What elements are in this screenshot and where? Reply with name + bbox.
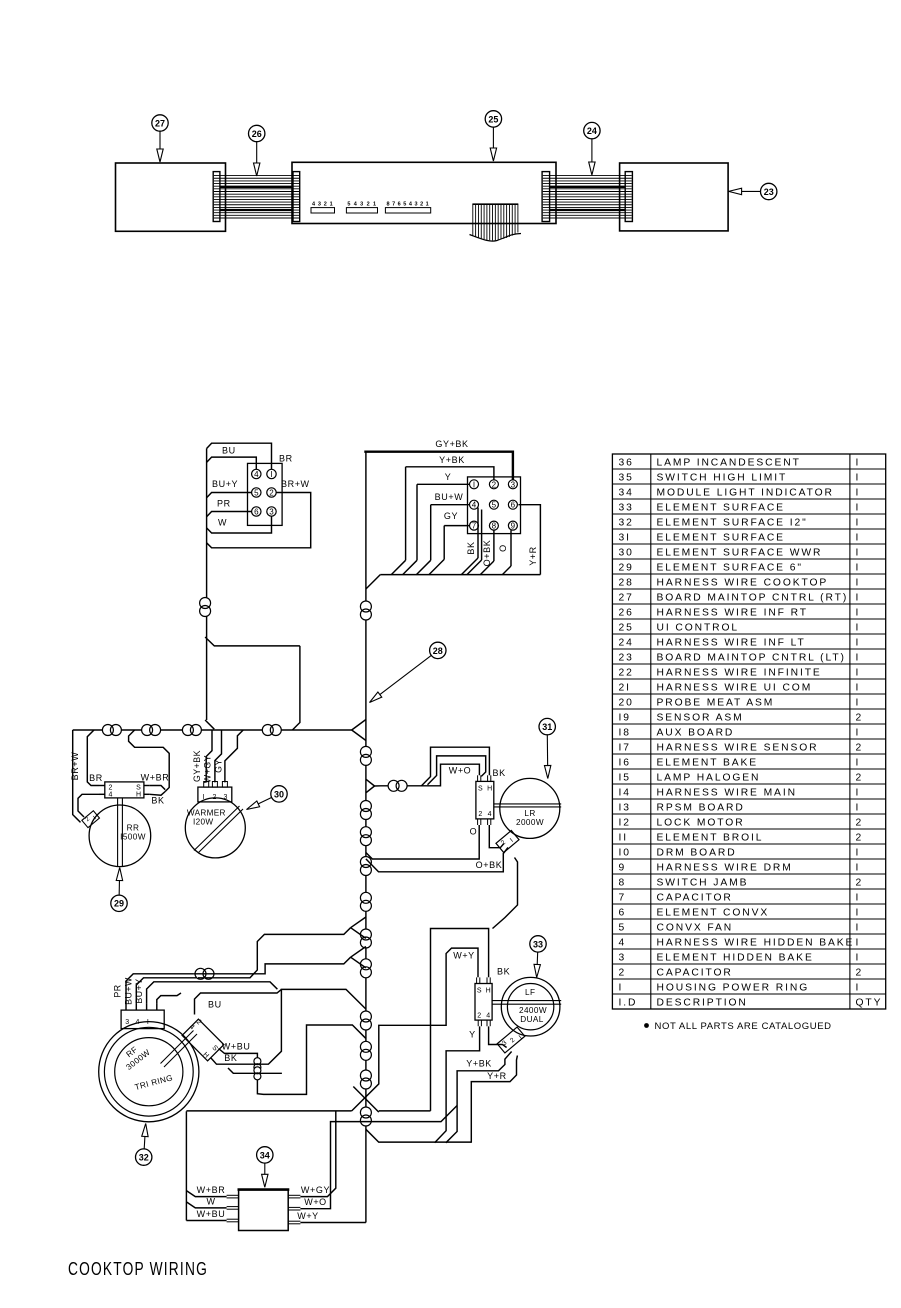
svg-text:I: I <box>856 547 861 558</box>
svg-text:O: O <box>470 827 478 837</box>
svg-text:ELEMENT BROIL: ELEMENT BROIL <box>657 832 764 843</box>
svg-text:2: 2 <box>109 785 113 792</box>
svg-text:7: 7 <box>392 202 395 208</box>
RF terminal block <box>121 1004 164 1029</box>
svg-text:2: 2 <box>324 202 327 208</box>
svg-text:2: 2 <box>492 480 497 489</box>
svg-text:36: 36 <box>619 457 634 468</box>
svg-text:7: 7 <box>472 522 477 531</box>
svg-text:34: 34 <box>260 1150 270 1160</box>
svg-text:ELEMENT SURFACE: ELEMENT SURFACE <box>657 502 785 513</box>
PR wire continues to bus <box>194 957 351 974</box>
wire BK to LF switch H <box>431 929 511 1111</box>
wire BK to LR switch H (outer loop) <box>422 747 506 786</box>
wire W+GY to WARMER pin2 <box>202 730 221 783</box>
svg-text:I: I <box>856 727 861 738</box>
svg-text:BOARD MAINTOP CNTRL (LT): BOARD MAINTOP CNTRL (LT) <box>657 652 846 663</box>
connector J-RT 9-pin block <box>468 477 521 534</box>
parts list table <box>612 454 885 1009</box>
svg-text:BR+W: BR+W <box>281 479 310 489</box>
svg-text:I8: I8 <box>619 727 631 738</box>
wire W+BU from RF switch S <box>219 1025 366 1094</box>
wire BU+W to pin 4 <box>431 492 470 505</box>
svg-text:H: H <box>486 988 491 995</box>
svg-text:BK: BK <box>493 768 506 778</box>
svg-text:I: I <box>856 622 861 633</box>
svg-text:24: 24 <box>619 637 634 648</box>
svg-text:W+Y: W+Y <box>453 951 475 961</box>
svg-text:S: S <box>477 988 482 995</box>
svg-text:3I: 3I <box>619 532 631 543</box>
crossover on left bus <box>200 598 211 617</box>
svg-text:Y+BK: Y+BK <box>466 1059 492 1069</box>
svg-text:23: 23 <box>619 652 634 663</box>
svg-text:W+GY: W+GY <box>202 755 212 783</box>
box34 left pin W <box>186 1196 238 1209</box>
svg-text:PR: PR <box>217 499 231 509</box>
crossovers on W+BU vertical <box>254 1058 261 1080</box>
left harness bus vertical <box>206 449 208 721</box>
svg-text:HARNESS WIRE UI COM: HARNESS WIRE UI COM <box>657 682 813 693</box>
wire from RR pin 4 to plug <box>78 794 99 817</box>
wire Y+R from pin 6 <box>518 505 540 575</box>
svg-text:BU+W: BU+W <box>435 492 464 502</box>
svg-text:2: 2 <box>856 877 864 888</box>
svg-text:SENSOR ASM: SENSOR ASM <box>657 712 744 723</box>
callout 26 <box>249 125 265 176</box>
svg-text:GY: GY <box>444 511 458 521</box>
LF element circle <box>492 977 561 1036</box>
callout 27 <box>152 115 168 162</box>
svg-text:HARNESS WIRE SENSOR: HARNESS WIRE SENSOR <box>657 742 819 753</box>
svg-text:RR: RR <box>127 824 140 833</box>
wire BR to RR switch pin 2 <box>87 730 103 786</box>
svg-text:BU: BU <box>208 1000 222 1010</box>
svg-text:I: I <box>856 802 861 813</box>
RF rotated switch block <box>182 1019 224 1061</box>
svg-text:BK: BK <box>224 1053 237 1063</box>
svg-text:2: 2 <box>856 832 864 843</box>
svg-text:ELEMENT SURFACE: ELEMENT SURFACE <box>657 532 785 543</box>
svg-text:2: 2 <box>856 712 864 723</box>
wire BU+Y to pin 5 <box>207 479 252 498</box>
svg-text:2000W: 2000W <box>516 818 544 827</box>
svg-text:2: 2 <box>619 967 627 978</box>
svg-text:1: 1 <box>426 202 429 208</box>
svg-text:2: 2 <box>367 202 370 208</box>
cooktop harness main bus vertical, item 28 <box>365 452 367 1223</box>
label BU+W vertical <box>123 977 133 1005</box>
svg-text:7: 7 <box>619 892 627 903</box>
svg-text:Y: Y <box>445 472 452 482</box>
svg-text:I5: I5 <box>619 772 631 783</box>
svg-text:DESCRIPTION: DESCRIPTION <box>657 997 748 1008</box>
svg-text:I: I <box>147 1019 149 1026</box>
svg-text:I: I <box>856 952 861 963</box>
wire from LR pin 4 down <box>489 825 504 848</box>
harness wire INF RT ribbon, item 26 <box>214 176 299 218</box>
callout 31 <box>539 718 555 778</box>
svg-text:MODULE LIGHT INDICATOR: MODULE LIGHT INDICATOR <box>657 487 834 498</box>
svg-text:2400W: 2400W <box>519 1006 547 1015</box>
svg-text:BU+W: BU+W <box>123 977 133 1005</box>
svg-text:ELEMENT SURFACE 6": ELEMENT SURFACE 6" <box>657 562 803 573</box>
svg-text:BU+Y: BU+Y <box>212 479 238 489</box>
svg-text:28: 28 <box>619 577 634 588</box>
svg-text:28: 28 <box>433 646 443 656</box>
callout 25 <box>485 111 501 161</box>
svg-text:4: 4 <box>488 811 492 818</box>
feed line from bus bottom <box>186 1110 351 1112</box>
svg-text:29: 29 <box>619 562 634 573</box>
LR infinite switch block <box>476 775 494 825</box>
svg-text:6: 6 <box>619 907 627 918</box>
svg-text:AUX BOARD: AUX BOARD <box>657 727 735 738</box>
ribbon connector bar right of harness 26 <box>293 172 300 222</box>
svg-text:I: I <box>856 517 861 528</box>
svg-text:9: 9 <box>619 862 627 873</box>
svg-text:I9: I9 <box>619 712 631 723</box>
ribbon connector bar left of harness 26 <box>213 172 220 222</box>
svg-text:I2: I2 <box>619 817 631 828</box>
callout 23 <box>729 183 777 199</box>
svg-text:W+Y: W+Y <box>297 1211 319 1221</box>
svg-text:I: I <box>270 470 272 479</box>
svg-text:DRM BOARD: DRM BOARD <box>657 847 737 858</box>
wire W from pin 3 <box>207 516 272 533</box>
svg-text:NOT ALL PARTS ARE CATALOGUED: NOT ALL PARTS ARE CATALOGUED <box>655 1021 832 1032</box>
svg-text:GY+BK: GY+BK <box>192 750 202 782</box>
right horizontal to LF BK <box>379 1110 431 1112</box>
wire BK from RR switch H <box>150 792 166 806</box>
svg-text:LR: LR <box>524 809 535 818</box>
svg-text:I: I <box>856 757 861 768</box>
svg-text:24: 24 <box>587 126 597 136</box>
svg-text:SWITCH HIGH LIMIT: SWITCH HIGH LIMIT <box>657 472 788 483</box>
wire BK from RF switch H <box>211 989 366 1064</box>
svg-text:20: 20 <box>619 697 634 708</box>
wire from LF pin 4 to dual pin 3 <box>489 1026 507 1047</box>
pin strip 87654321 on UI board <box>385 202 430 214</box>
svg-text:DUAL: DUAL <box>520 1015 543 1024</box>
svg-text:I: I <box>856 487 861 498</box>
left feed vertical to box 34 <box>185 1111 187 1220</box>
svg-text:I500W: I500W <box>120 833 146 842</box>
wire GY to WARMER pin3 <box>213 730 243 782</box>
BU+W wire continues to bus <box>198 928 351 978</box>
svg-text:BU+Y: BU+Y <box>134 978 144 1003</box>
svg-text:32: 32 <box>139 1153 149 1163</box>
wire O below 9-pin <box>498 530 511 566</box>
wire Y from LF pin 2 <box>435 1026 480 1142</box>
svg-text:8: 8 <box>386 202 389 208</box>
svg-text:O: O <box>498 544 508 552</box>
svg-text:I: I <box>856 787 861 798</box>
pin strip 4321 on UI board <box>311 202 335 214</box>
svg-text:I: I <box>856 607 861 618</box>
svg-text:3: 3 <box>619 952 627 963</box>
svg-text:2: 2 <box>856 967 864 978</box>
svg-text:1: 1 <box>330 202 333 208</box>
svg-text:26: 26 <box>252 129 262 139</box>
UI control board box, item 25 <box>292 162 556 223</box>
wire riser W+BR/BK from bus <box>129 730 170 792</box>
svg-text:PROBE MEAT ASM: PROBE MEAT ASM <box>657 697 775 708</box>
svg-text:W: W <box>218 518 227 528</box>
svg-text:W: W <box>206 1196 215 1206</box>
svg-text:S: S <box>478 786 483 793</box>
svg-text:W+BR: W+BR <box>141 773 170 783</box>
board maintop cntrl (LT) box, item 23 <box>620 163 729 231</box>
svg-text:W+GY: W+GY <box>301 1185 330 1195</box>
svg-text:HARNESS WIRE DRM: HARNESS WIRE DRM <box>657 862 793 873</box>
wire O from LR pin 2 <box>366 825 479 859</box>
svg-text:I: I <box>856 637 861 648</box>
svg-text:5: 5 <box>619 922 627 933</box>
svg-text:I7: I7 <box>619 742 631 753</box>
svg-text:LAMP INCANDESCENT: LAMP INCANDESCENT <box>657 457 801 468</box>
junction of horizontal bus into main bus <box>352 720 366 741</box>
label BU+Y vertical <box>134 978 144 1003</box>
wire Y+R from LF dual pin 1 <box>471 1056 517 1143</box>
gather line below LF <box>366 1129 471 1142</box>
pin strip 54321 on UI board <box>346 202 377 214</box>
svg-text:I: I <box>856 937 861 948</box>
svg-text:2: 2 <box>269 489 274 498</box>
svg-text:9: 9 <box>511 522 516 531</box>
svg-text:22: 22 <box>619 667 634 678</box>
svg-text:25: 25 <box>488 114 498 124</box>
box34 right pin W+Y <box>288 1211 366 1224</box>
svg-text:W+BU: W+BU <box>197 1209 226 1219</box>
svg-text:ELEMENT SURFACE WWR: ELEMENT SURFACE WWR <box>657 547 823 558</box>
svg-text:I: I <box>473 480 475 489</box>
svg-text:I: I <box>856 922 861 933</box>
LR element circle <box>494 778 561 838</box>
svg-text:3: 3 <box>318 202 321 208</box>
wire O+BK below 9-pin <box>482 530 494 566</box>
svg-text:BK: BK <box>466 541 476 554</box>
svg-text:31: 31 <box>542 722 552 732</box>
svg-text:GY: GY <box>213 759 223 773</box>
callout 33 <box>530 936 546 978</box>
wire BU+Y to RF pin1 <box>147 982 202 1004</box>
svg-text:30: 30 <box>619 547 634 558</box>
harness wire UI COM bundle under UI board <box>470 204 522 241</box>
svg-text:Y+R: Y+R <box>487 1071 507 1081</box>
wire Y+BK from LF dual pin 2 <box>446 1052 512 1143</box>
svg-text:32: 32 <box>619 517 634 528</box>
svg-text:5: 5 <box>403 202 406 208</box>
harness fan converging to cooktop bus <box>366 558 541 589</box>
middle loop wire at LR <box>428 756 486 785</box>
box34 left pin W+BU <box>186 1209 238 1222</box>
svg-text:CAPACITOR: CAPACITOR <box>657 967 733 978</box>
X crossing at bus <box>353 1087 379 1113</box>
svg-text:1: 1 <box>373 202 376 208</box>
svg-text:Y+R: Y+R <box>528 546 538 566</box>
svg-text:W+BR: W+BR <box>197 1185 226 1195</box>
callout 30 <box>247 786 288 810</box>
wire GY+BK to WARMER pin1 <box>192 730 212 782</box>
svg-text:4: 4 <box>486 1013 490 1020</box>
svg-text:GY+BK: GY+BK <box>435 439 468 449</box>
svg-text:HARNESS WIRE COOKTOP: HARNESS WIRE COOKTOP <box>657 577 829 588</box>
box34 right pin W+O <box>288 1106 457 1211</box>
LF dual terminal block <box>497 1027 526 1054</box>
svg-text:33: 33 <box>619 502 634 513</box>
connector J-LT 6-pin block <box>248 463 283 525</box>
harness wire INF LT ribbon, item 24 <box>543 176 632 218</box>
third wire below BK <box>228 1068 282 1073</box>
svg-text:25: 25 <box>619 622 634 633</box>
svg-text:30: 30 <box>274 789 284 799</box>
svg-text:6: 6 <box>398 202 401 208</box>
svg-text:I: I <box>619 982 624 993</box>
svg-text:2: 2 <box>420 202 423 208</box>
svg-text:H: H <box>487 786 492 793</box>
svg-text:I: I <box>856 907 861 918</box>
svg-text:4: 4 <box>472 501 477 510</box>
svg-text:CAPACITOR: CAPACITOR <box>657 892 733 903</box>
svg-text:WARMER: WARMER <box>187 809 226 818</box>
junction W+O at bus <box>366 779 375 793</box>
crossover humps on horizontal bus <box>102 725 281 736</box>
svg-text:I: I <box>856 502 861 513</box>
wire BR+W from pin 2 <box>207 479 311 548</box>
svg-text:3: 3 <box>360 202 363 208</box>
svg-text:4: 4 <box>109 792 113 799</box>
wire BU from RF switch pin2 <box>195 989 282 1014</box>
svg-text:O+BK: O+BK <box>482 540 492 567</box>
svg-text:COOKTOP WIRING: COOKTOP WIRING <box>68 1259 208 1279</box>
svg-text:I: I <box>856 457 861 468</box>
svg-text:I: I <box>856 577 861 588</box>
svg-text:2: 2 <box>856 742 864 753</box>
svg-text:BOARD MAINTOP CNTRL (RT): BOARD MAINTOP CNTRL (RT) <box>657 592 849 603</box>
callout 29 <box>111 868 127 912</box>
wire Y+BK to pin 2 <box>406 455 494 480</box>
svg-text:5: 5 <box>347 202 350 208</box>
svg-text:3: 3 <box>269 508 274 517</box>
svg-text:HARNESS WIRE INFINITE: HARNESS WIRE INFINITE <box>657 667 822 678</box>
svg-text:I: I <box>856 652 861 663</box>
svg-text:I3: I3 <box>619 802 631 813</box>
wire BU to pin 4 <box>207 446 257 470</box>
box34 right pin W+GY <box>288 1111 336 1198</box>
svg-text:I: I <box>856 847 861 858</box>
svg-text:2: 2 <box>856 817 864 828</box>
svg-text:4: 4 <box>619 937 627 948</box>
wire from LR block to LF BK wire <box>493 858 518 929</box>
svg-text:34: 34 <box>619 487 634 498</box>
svg-text:H: H <box>136 792 141 799</box>
horizontal harness bus <box>73 730 352 822</box>
callout 32 <box>136 1124 152 1166</box>
svg-text:I: I <box>856 682 861 693</box>
svg-text:2: 2 <box>477 1013 481 1020</box>
svg-text:HARNESS WIRE INF RT: HARNESS WIRE INF RT <box>657 607 808 618</box>
BU+Y wire continues <box>202 982 277 989</box>
ribbon connector bar left of harness 24 <box>542 172 550 222</box>
svg-text:2: 2 <box>478 811 482 818</box>
RR plug 2-pin rotated block <box>82 811 100 828</box>
wire Y to pin 1 <box>417 472 470 484</box>
svg-text:LF: LF <box>525 988 535 997</box>
WARMER terminal block <box>198 782 232 802</box>
svg-text:BR: BR <box>279 454 293 464</box>
svg-text:I: I <box>856 667 861 678</box>
svg-text:3: 3 <box>414 202 417 208</box>
svg-text:23: 23 <box>764 187 774 197</box>
svg-text:27: 27 <box>619 592 634 603</box>
svg-text:HARNESS WIRE INF LT: HARNESS WIRE INF LT <box>657 637 806 648</box>
RR infinite switch block <box>99 782 150 799</box>
left wire drops from 9-pin <box>406 467 445 561</box>
svg-text:4: 4 <box>254 470 259 479</box>
svg-text:S: S <box>136 785 141 792</box>
svg-text:2I: 2I <box>619 682 631 693</box>
wire label BR+W on left drop <box>70 752 80 781</box>
svg-text:29: 29 <box>114 899 124 909</box>
svg-text:I: I <box>856 862 861 873</box>
svg-text:26: 26 <box>619 607 634 618</box>
wire PR to pin 6 <box>207 499 252 517</box>
svg-text:II: II <box>619 832 629 843</box>
svg-text:I0: I0 <box>619 847 631 858</box>
crossover on PR wire <box>195 968 214 979</box>
svg-text:I: I <box>856 562 861 573</box>
svg-text:QTY: QTY <box>856 997 883 1008</box>
svg-text:HARNESS WIRE MAIN: HARNESS WIRE MAIN <box>657 787 797 798</box>
svg-text:I: I <box>856 697 861 708</box>
RF element circles <box>99 1022 199 1122</box>
svg-text:ELEMENT HIDDEN BAKE: ELEMENT HIDDEN BAKE <box>657 952 814 963</box>
ribbon connector bar right of harness 24 <box>625 172 632 222</box>
LR dual terminal block <box>496 830 519 852</box>
svg-text:Y+BK: Y+BK <box>439 455 465 465</box>
svg-text:27: 27 <box>155 118 165 128</box>
svg-text:3: 3 <box>511 480 516 489</box>
svg-text:O+BK: O+BK <box>476 860 503 870</box>
svg-text:3: 3 <box>125 1019 129 1026</box>
svg-text:SWITCH JAMB: SWITCH JAMB <box>657 877 749 888</box>
wire W+BR from RR switch S <box>141 773 170 790</box>
callout 34 <box>257 1147 273 1188</box>
svg-text:6: 6 <box>254 508 259 517</box>
svg-text:8: 8 <box>619 877 627 888</box>
callout 24 <box>584 122 600 175</box>
svg-text:HOUSING POWER RING: HOUSING POWER RING <box>657 982 810 993</box>
svg-text:W+O: W+O <box>449 766 472 776</box>
wire stub from RF pin 4t <box>157 993 181 1004</box>
svg-text:I.D: I.D <box>619 997 638 1008</box>
wire BR to pin 1 <box>207 443 293 469</box>
svg-text:I: I <box>856 472 861 483</box>
box34 left pin W+BR <box>186 1185 238 1198</box>
svg-text:LAMP HALOGEN: LAMP HALOGEN <box>657 772 761 783</box>
svg-text:I: I <box>856 532 861 543</box>
svg-text:Y: Y <box>469 1030 476 1040</box>
callout 28 <box>370 642 446 702</box>
svg-text:BR: BR <box>89 773 103 783</box>
wire GY+BK to pin 3 (thick) <box>364 439 513 480</box>
svg-text:BK: BK <box>151 796 164 806</box>
svg-text:UI CONTROL: UI CONTROL <box>657 622 740 633</box>
svg-text:LOCK MOTOR: LOCK MOTOR <box>657 817 745 828</box>
svg-text:W+O: W+O <box>304 1197 327 1207</box>
left bus branch to horizontal bus <box>205 637 300 730</box>
